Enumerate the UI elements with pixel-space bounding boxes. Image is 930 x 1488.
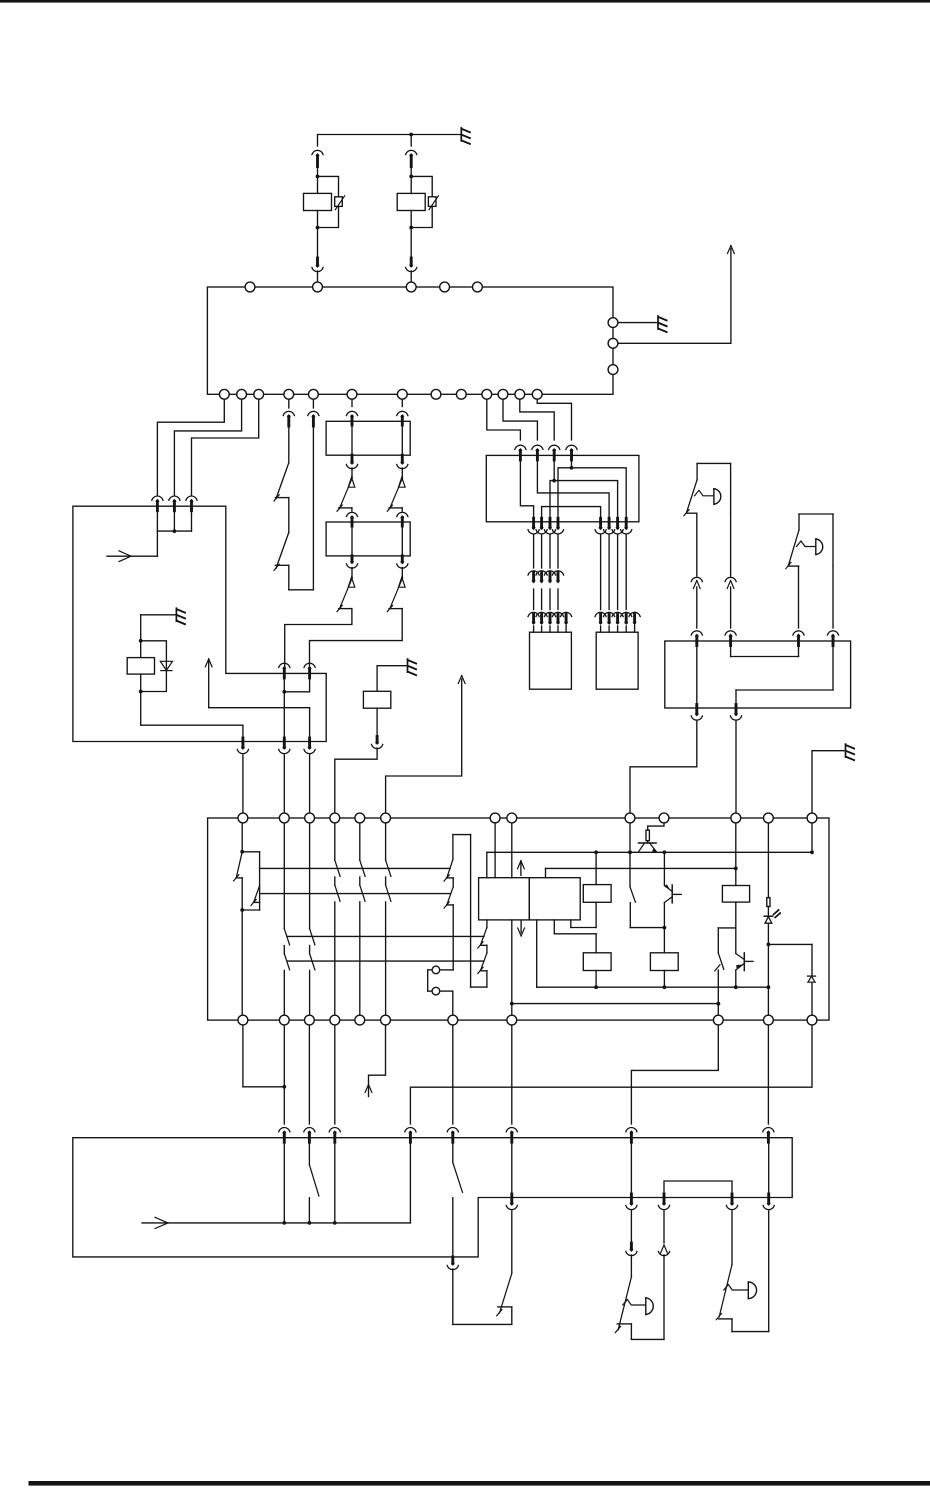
terminal on ECU top edge x=309.6	[305, 813, 315, 823]
connector out of J/B x=309.6	[304, 738, 315, 754]
switch chain from motor box	[471, 835, 487, 988]
connector on wire x=313.4	[308, 411, 319, 426]
connector box C outline	[486, 455, 639, 521]
check connector pin 1	[432, 966, 440, 974]
terminal on B1 bottom edge x=258.7	[254, 389, 264, 399]
terminal on ECU bottom edge x=284.3	[279, 1015, 289, 1025]
connector into box C x=537.4	[532, 445, 543, 460]
wire R3 to J/B exit	[141, 674, 243, 741]
wire ECU terminal to motor 2	[511, 823, 513, 878]
terminal on ECU bottom edge x=718.3	[713, 1015, 723, 1025]
component box E	[596, 632, 638, 689]
terminal on ECU top edge x=385.6	[381, 813, 391, 823]
LED LD1	[764, 907, 780, 1016]
wire LED branch to diode	[768, 944, 812, 976]
relay block outline (stepped)	[73, 1138, 792, 1257]
connector into box C x=554.2	[549, 445, 560, 460]
wire B1 pin2 to J/B	[174, 394, 241, 495]
connector out of J/B x=284.3	[279, 738, 290, 754]
ECU bottom rail b	[510, 920, 720, 1015]
internal rail lower	[546, 867, 738, 878]
component box D	[530, 632, 572, 689]
terminal on ECU top edge x=359.8	[355, 813, 365, 823]
inline connector x=631.4	[626, 1211, 637, 1256]
terminal on B1 top edge x=411.2	[406, 282, 416, 292]
inline connector pair x=533.6 row2	[528, 571, 539, 584]
wire ECU to relay block 5	[511, 1025, 513, 1124]
terminal on B1 top edge x=250.0	[245, 282, 255, 292]
wire cluster-right x=626.2	[625, 535, 627, 632]
wire contact 2 in relay block	[333, 1142, 337, 1225]
junction box F outline	[665, 641, 851, 708]
connector into J/B top x=157.4	[152, 496, 163, 511]
wire relay coil to ground stub	[141, 615, 177, 658]
connector out of box C x=626.2	[621, 518, 632, 534]
terminal on ECU bottom edge x=452.8	[448, 1015, 458, 1025]
relay contact K1 (double throw)	[234, 823, 260, 1015]
box C pass-through wire	[542, 507, 601, 522]
wire SW1 right leg	[730, 513, 732, 576]
connector into relay block x=410.4	[405, 1128, 416, 1143]
inline connector pair x=609.1 row3	[604, 612, 615, 625]
connector out of relay block x=768.7	[763, 1194, 774, 1210]
wire J/B to ECU terminal 3	[309, 755, 311, 813]
relay contact K2 chain	[444, 835, 471, 970]
wire ECU to relay block 7	[767, 1025, 769, 1124]
box F internal wire 3	[696, 645, 698, 708]
component box H2	[326, 522, 410, 556]
wire junction inside J/B	[157, 504, 191, 556]
connector out of box F x=696.8	[691, 705, 702, 721]
connector into relay block x=334.8	[329, 1128, 340, 1143]
wire ECU to relay block 3	[334, 1025, 336, 1124]
terminal on ECU top edge x=495.1	[490, 813, 500, 823]
terminal on B1 bottom edge x=503.0	[498, 389, 508, 399]
node on supply bus	[409, 133, 413, 137]
wire pass-through in relay block c	[768, 1142, 770, 1198]
buzzer switch SW4	[716, 1211, 768, 1332]
wire B1 to box C in1	[487, 394, 521, 440]
rail 4	[287, 960, 484, 962]
terminal on ECU top edge x=242.9	[238, 813, 248, 823]
wire cluster-left x=550.0	[549, 535, 551, 632]
connector into box F x=833.0	[827, 631, 838, 646]
box C crossover wire 4	[558, 460, 626, 522]
relay block bus wire	[142, 1142, 410, 1229]
connector into relay block x=452.8	[447, 1128, 458, 1143]
terminal on ECU bottom edge x=309.4	[305, 1015, 315, 1025]
terminal on ECU top edge x=511.8	[507, 813, 517, 823]
wire filter to ECU terminal	[335, 748, 377, 813]
terminal on B1 bottom edge x=519.8	[515, 389, 525, 399]
switch S3	[715, 928, 724, 1015]
connector out of box C x=550.0	[544, 518, 555, 534]
terminal on ECU bottom edge x=812.0	[807, 1015, 817, 1025]
emitter resistor R15	[646, 823, 664, 843]
inline connector x=664.0	[658, 1211, 669, 1256]
inline connector pair x=626.2 row3	[621, 612, 632, 625]
ground G4	[408, 659, 417, 675]
wire cluster-right x=609.1	[608, 535, 610, 632]
wire contact 1 in relay block	[282, 1142, 286, 1225]
resistor R14	[718, 823, 749, 928]
wire B1 to box C in4	[537, 394, 571, 440]
terminal on B1 bottom edge x=313.4	[309, 389, 319, 399]
switch S4 in relay block	[308, 1142, 319, 1225]
ECU bottom rail a	[537, 920, 769, 987]
terminal on ECU top edge x=664.0	[659, 813, 669, 823]
page bottom border bar	[29, 1481, 930, 1486]
connector out of relay block x=631.4	[626, 1194, 637, 1210]
terminal on B1 bottom edge x=436.0	[431, 389, 441, 399]
terminal on B1 bottom edge x=537.2	[532, 389, 542, 399]
wire Q1 collector	[663, 852, 665, 885]
switch S2	[628, 823, 664, 928]
rail 2	[260, 893, 450, 895]
motor box right	[529, 878, 580, 920]
wire cluster-left x=558.0	[557, 535, 559, 632]
connector into relay block x=309.4	[304, 1128, 315, 1143]
switch contacts on wire x=284.3 (rails 3,4)	[284, 823, 289, 1015]
wire sensor1 to J/B step	[285, 609, 352, 668]
ground G1 (top)	[461, 128, 470, 144]
motor down arrow	[518, 921, 525, 936]
connector into box C x=571.5	[566, 445, 577, 460]
ground G2	[658, 316, 667, 332]
connector into box F x=696.8	[691, 631, 702, 646]
resistor R13	[650, 926, 678, 989]
page top border bar	[0, 0, 930, 3]
wire pass-through in relay block	[511, 1142, 513, 1198]
terminal on ECU bottom edge x=334.8	[330, 1015, 340, 1025]
inline connector pair x=600.6 row3	[595, 612, 606, 625]
wire box F to ECU terminal b	[735, 722, 737, 814]
terminal on B1 right edge y=343.3	[608, 338, 618, 348]
courtesy switch SW2 with buzzer	[786, 514, 833, 628]
door switch SW5	[453, 1211, 512, 1324]
box C crossover wire 1	[520, 460, 533, 522]
wire filter to ground	[377, 666, 406, 692]
transistor Q2	[664, 884, 681, 927]
switch contacts on wire x=385.6 (rails 1,2)	[386, 823, 391, 1015]
wire B1 pin1 to J/B	[157, 394, 224, 495]
inline connector pair x=541.6 row3	[536, 612, 547, 625]
wire inside J/B joining step entries	[282, 677, 309, 742]
terminal on ECU bottom edge x=511.8	[507, 1015, 517, 1025]
connector into J/B top x=191.5	[186, 496, 197, 511]
wire ECU terminal to off-page arrow	[386, 679, 462, 813]
courtesy switch SW1 with buzzer	[684, 463, 731, 576]
connector out of box C x=558.0	[552, 518, 563, 534]
terminal on B1 top edge x=477.4	[473, 282, 483, 292]
junction box B1 outline	[207, 287, 613, 394]
connector into box F x=798.5	[793, 631, 804, 646]
inline connector on SW1 left wire	[691, 577, 702, 628]
connector below filter	[372, 708, 383, 748]
terminal on ECU bottom edge x=768.4	[764, 1015, 774, 1025]
connector out of box F x=736.0	[730, 705, 741, 721]
inline connector pair x=558.0 row3	[552, 612, 563, 625]
terminal on ECU bottom edge x=359.8	[355, 1015, 365, 1025]
switch contacts on wire x=334.8 (rails 1,2)	[335, 823, 340, 1015]
rail 3	[287, 935, 484, 937]
internal rail upper	[487, 823, 814, 878]
junction block J/B outline (stepped)	[73, 506, 326, 741]
terminal on ECU top edge x=768.4	[764, 813, 774, 823]
wire ECU to relay block 2	[308, 1025, 310, 1124]
box F internal wire 1	[731, 645, 799, 657]
source arrow into J/B	[107, 551, 157, 562]
terminal on B1 bottom edge x=402.3	[397, 389, 407, 399]
box C crossover wire 2	[537, 460, 609, 522]
inline connector pair x=550.0 row3	[544, 612, 555, 625]
relay R2 with varistor	[397, 135, 438, 283]
connector out of box C x=533.6	[528, 518, 539, 534]
terminal on B1 bottom edge x=288.8	[284, 389, 294, 399]
switch contacts on wire x=359.8 (rails 1,2)	[360, 823, 365, 1015]
terminal on B1 bottom edge x=486.8	[482, 389, 492, 399]
ground G5	[846, 744, 855, 760]
wire ECU to relay block 6	[631, 1025, 718, 1124]
connector out of box C x=541.6	[536, 518, 547, 534]
terminal on B1 top edge x=444.6	[440, 282, 450, 292]
terminal on ECU top edge x=812.0	[807, 813, 817, 823]
wire cluster-left x=533.6	[533, 535, 535, 632]
off-page arrow A3	[458, 676, 465, 684]
ECU box outline	[208, 818, 829, 1020]
terminal on ECU top edge x=630.0	[625, 813, 635, 823]
connector into relay block x=631.4	[626, 1128, 637, 1143]
wire B1 to off-page arrow (top right)	[613, 249, 731, 344]
bridge wire in relay block	[664, 1181, 732, 1198]
terminal on B1 top edge x=317.5	[313, 282, 323, 292]
wire J/B to ECU terminal 2	[283, 755, 285, 813]
wire B1 to box C in2	[503, 394, 537, 440]
stub pin x=634.6	[629, 612, 640, 632]
wire B1 to ground (right)	[613, 322, 657, 324]
resistor R11	[571, 852, 611, 927]
diode D2	[808, 976, 816, 1015]
connector into relay block x=511.8	[506, 1128, 517, 1143]
wire B1 pin3 to J/B	[192, 394, 259, 495]
wire sensor2 to J/B step	[310, 609, 403, 668]
connector out of box C x=617.6	[612, 518, 623, 534]
box C crossover wire 3	[550, 460, 618, 522]
connector out of box C x=609.1	[604, 518, 615, 534]
terminal on B1 bottom edge x=352.0	[347, 389, 357, 399]
wire B1 to box C in3	[520, 394, 554, 440]
relay R3 coil (inside J/B)	[127, 658, 154, 675]
wire ECU to relay block 4	[452, 1025, 454, 1124]
connector out of J/B x=242.9	[237, 738, 248, 754]
inline connector on SW1 right wire	[725, 577, 736, 628]
terminal on B1 bottom edge x=241.6	[237, 389, 247, 399]
terminal on ECU bottom edge x=385.5	[381, 1015, 391, 1025]
wire pass-through in relay block b	[630, 1142, 632, 1198]
wire cluster-right x=600.6	[600, 535, 602, 632]
terminal on B1 bottom edge x=461.3	[456, 389, 466, 399]
connector out of relay block x=511.8	[506, 1194, 517, 1210]
connector out of relay block x=664.0	[658, 1194, 669, 1210]
connector out of relay block x=732.0	[726, 1194, 737, 1210]
sensor chain on wire x=402.3	[387, 394, 408, 611]
wire ECU terminal to ground (right)	[812, 751, 844, 813]
wire box F to ECU terminal a	[630, 722, 697, 814]
ground G3 (inside J/B)	[176, 608, 185, 624]
switch S5 in relay block	[453, 1142, 463, 1257]
wire ECU terminal to motor 1	[494, 823, 496, 878]
connector into box F x=730.6	[725, 631, 736, 646]
connector out of box C x=600.6	[595, 518, 606, 534]
wire ECU to relay block 1	[283, 1025, 285, 1124]
motor up arrow	[518, 861, 525, 876]
sensor chain on wire x=352	[337, 394, 358, 611]
connector out of relay block x=452.8	[447, 1257, 458, 1270]
resistor R12	[554, 920, 611, 989]
terminal on B1 bottom edge x=224.3	[219, 389, 229, 399]
wire ECU to off-page arrow A4	[365, 1025, 385, 1097]
wire ECU pin to joint	[243, 1025, 286, 1089]
LED resistor R16	[767, 823, 770, 907]
inline connector pair x=533.6 row3	[528, 612, 539, 625]
check connector pin 2	[432, 987, 440, 995]
connector into J/B top x=174.4	[169, 496, 180, 511]
diode D1 branch	[139, 639, 173, 694]
wire cluster-left x=541.6	[541, 535, 543, 632]
component box H1	[326, 421, 410, 455]
box F internal wire 2	[736, 645, 833, 708]
terminal on B1 right edge y=322.6	[608, 318, 618, 328]
wire cluster-right x=617.6	[617, 535, 619, 632]
buzzer switch SW3	[615, 1255, 664, 1339]
inline connector pair x=617.6 row3	[612, 612, 623, 625]
connector into relay block x=284.3	[279, 1128, 290, 1143]
relay R1 with varistor	[304, 135, 345, 283]
connector into J/B step x=309.6	[304, 663, 315, 678]
terminal on B1 right edge y=369.6	[608, 365, 618, 375]
check connector (2 pin)	[428, 970, 454, 1015]
terminal on ECU top edge x=284.3	[279, 813, 289, 823]
stub pin x=566.1	[561, 612, 572, 632]
off-page arrow A1	[728, 246, 735, 254]
wire ECU to relay block 8	[410, 1025, 812, 1124]
connector into relay block x=768.4	[763, 1128, 774, 1143]
rail 1	[260, 867, 451, 869]
inline connector pair x=541.6 row2	[536, 571, 547, 584]
connector into box C x=520.4	[515, 445, 526, 460]
terminal on ECU bottom edge x=242.9	[238, 1015, 248, 1025]
connector on wire x=288.8	[283, 411, 294, 426]
transistor Q3	[734, 928, 753, 989]
wire - relay supply bus to ground	[318, 134, 462, 136]
terminal on ECU top edge x=735.8	[731, 813, 741, 823]
noise filter box	[363, 691, 390, 708]
off-page arrow A2 into J/B	[205, 659, 309, 742]
motor box left	[479, 878, 530, 920]
inline connector pair x=550.0 row2	[544, 571, 555, 584]
switch contacts on wire x=309.6 (rails 3,4)	[310, 823, 315, 1015]
switch S1 (two contacts in series)	[274, 394, 313, 590]
connector into J/B step x=284.3	[279, 663, 290, 678]
terminal on ECU top edge x=334.8	[330, 813, 340, 823]
wire J/B to ECU terminal 1	[242, 755, 244, 813]
inline connector pair x=558.0 row2	[552, 571, 563, 584]
transistor Q1	[638, 843, 657, 852]
